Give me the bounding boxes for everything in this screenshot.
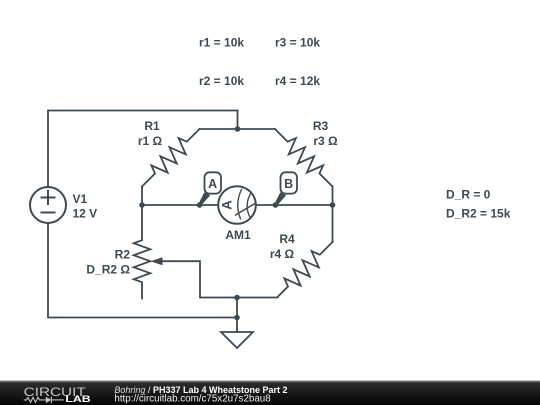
svg-text:B: B — [284, 177, 293, 191]
svg-text:V1: V1 — [73, 192, 88, 206]
svg-text:r4 Ω: r4 Ω — [270, 247, 295, 261]
svg-text:r3 = 10k: r3 = 10k — [275, 36, 320, 50]
svg-text:r2 = 10k: r2 = 10k — [199, 74, 244, 88]
svg-text:R3: R3 — [313, 119, 329, 133]
svg-text:r1 = 10k: r1 = 10k — [199, 36, 244, 50]
svg-text:r4 = 12k: r4 = 12k — [275, 74, 320, 88]
svg-text:A: A — [208, 177, 217, 191]
svg-text:R1: R1 — [144, 119, 160, 133]
svg-text:LAB: LAB — [65, 394, 90, 405]
svg-text:AM1: AM1 — [225, 228, 251, 242]
svg-text:12 V: 12 V — [73, 207, 98, 221]
svg-text:r3 Ω: r3 Ω — [313, 134, 338, 148]
svg-text:r1 Ω: r1 Ω — [138, 134, 163, 148]
svg-text:A: A — [220, 200, 235, 210]
svg-text:http://circuitlab.com/c75x2u7s: http://circuitlab.com/c75x2u7s2bau8 — [114, 393, 271, 404]
svg-text:D_R2 Ω: D_R2 Ω — [86, 263, 130, 277]
svg-text:R2: R2 — [115, 248, 131, 262]
svg-text:D_R = 0: D_R = 0 — [446, 188, 491, 202]
svg-text:D_R2 = 15k: D_R2 = 15k — [446, 207, 511, 221]
svg-text:R4: R4 — [279, 232, 295, 246]
